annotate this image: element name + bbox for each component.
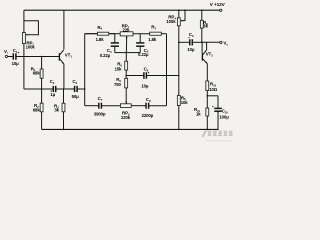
capacitor C1 10u (input coupling) [12,53,14,59]
capacitor C5 0.22u (treble right) [139,34,141,43]
tone input column wire [84,34,86,106]
capacitor C3 50u [74,86,76,92]
svg-text:50μ: 50μ [72,94,80,99]
wire C1 to VT1 base (node A) [16,56,59,58]
wire C2 to emitter node [56,88,75,90]
svg-text:0.22μ: 0.22μ [100,53,111,58]
junction R1/R2 midpoint [41,88,43,90]
svg-text:0.22μ: 0.22μ [138,52,149,57]
svg-text:10μ: 10μ [187,47,195,52]
resistor R3 3k (emitter) [63,89,65,103]
svg-text:1μ: 1μ [50,92,55,97]
svg-text:100μ: 100μ [219,114,229,119]
svg-text:750: 750 [114,82,122,87]
capacitor C9 10u [179,41,190,43]
svg-text:3k: 3k [54,107,59,112]
svg-text:68k: 68k [33,107,41,112]
resistor R11 1k [206,96,208,108]
wire C6 to RP4 column [146,75,178,77]
svg-text:15k: 15k [115,67,123,72]
capacitor C8 2200p (bass right) [145,103,147,109]
power rail +12V (top) [24,9,220,11]
svg-text:www.elecfans.com: www.elecfans.com [207,138,233,142]
svg-text:10Ω: 10Ω [209,87,218,92]
svg-text:10k: 10k [181,100,189,105]
input terminal Vi [5,55,7,57]
RP2 wiper [126,36,128,42]
resistor R5 15k [125,61,128,70]
svg-text:1k: 1k [196,111,201,116]
terminal V+12V [220,9,222,11]
svg-text:1.8k: 1.8k [96,37,105,42]
watermark logo [202,131,233,137]
tone output column [166,34,168,106]
potentiometer RP1 100k [23,10,25,32]
svg-text:100k: 100k [166,19,176,24]
junction RP4 column / C9 wire [178,42,180,44]
junction node Z (R10/R11/C10) [207,95,209,97]
svg-text:3k: 3k [203,24,208,29]
capacitor C10 100u (output filter) [217,96,219,109]
RP1 wiper loop to top terminal [24,21,39,35]
wire input to C1 [8,56,14,58]
wire R4 to RP2 [109,33,121,35]
wire RP3 to C8 [131,105,146,107]
capacitor C4 0.22u (treble left) [114,34,116,43]
resistor R8 3k (from rail) [201,9,203,11]
wire C3 to tone input column [77,88,85,90]
tone stack top wire [85,33,98,35]
svg-text:1.8k: 1.8k [148,37,157,42]
schematic background [0,0,240,146]
potentiometer RP4 100k [178,9,180,11]
resistor R4 1.8k [85,33,98,35]
wire node M horizontal [24,88,53,90]
junction node Y (R8/C9/Vo/VT2) [201,42,203,44]
resistor R1 68k [41,57,43,70]
capacitor C7 3900p (bass left) [98,103,100,109]
svg-text:2200p: 2200p [142,113,154,118]
RP4 wiper loop to rail [184,9,186,11]
svg-text:V +12V: V +12V [210,2,226,7]
wire VT2 emitter down [206,64,208,82]
junction emitter/R3 [63,88,65,90]
resistor R10 10ohm [206,81,209,91]
potentiometer RP2 22k [120,32,133,36]
resistor R2 68k [41,89,43,103]
resistor R9 10k [178,94,180,96]
svg-text:68k: 68k [33,71,41,76]
svg-text:10μ: 10μ [141,83,149,88]
transistor VT1 (NPN) [58,53,60,60]
wire node Z to C10 [207,95,218,97]
potentiometer RP3 220k [120,104,131,108]
resistor R7 1.8k [150,32,162,35]
resistor R6 750 [125,78,128,88]
junction R5/R6 to C6 [125,75,127,77]
svg-text:220k: 220k [121,115,131,120]
wire node Y to output terminal [202,41,220,43]
transistor VT2 (NPN) [201,42,203,53]
svg-text:10μ: 10μ [12,61,20,66]
capacitor C2 1u [52,86,54,92]
svg-text:22k: 22k [123,27,131,32]
svg-text:3900p: 3900p [94,112,106,117]
svg-text:100k: 100k [26,45,36,50]
wire VT1 emitter down [63,64,65,89]
capacitor C6 10u (mid coupling) [126,75,144,77]
wiper column down from RP2 [125,42,127,61]
wire VT1 collector to +12V rail [63,10,65,49]
terminal Vo [220,41,222,43]
tone stack bottom wire [85,105,99,107]
junction treble caps to wiper column [125,52,127,54]
ground rail (bottom) [42,128,219,130]
